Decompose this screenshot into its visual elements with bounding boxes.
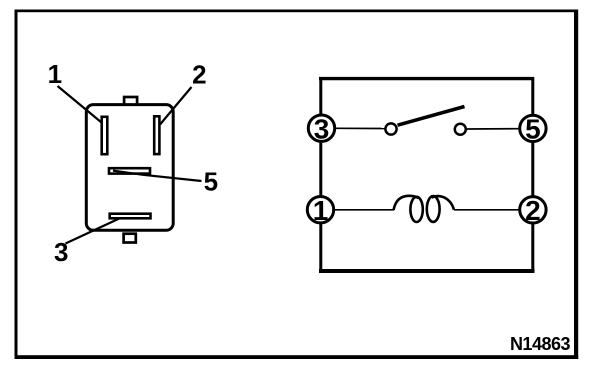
- pin label 3: [54, 237, 68, 267]
- terminal slot pin 2 (right vertical): [154, 116, 159, 154]
- svg-text:3: 3: [314, 113, 330, 144]
- svg-text:2: 2: [525, 195, 541, 226]
- terminal slot pin 1 (left vertical): [102, 117, 108, 154]
- relay coil: [394, 196, 454, 222]
- svg-text:3: 3: [54, 237, 68, 267]
- wire from terminal 3 to switch contact: [335, 127, 385, 129]
- relay connector top mounting tab: [124, 97, 137, 106]
- leader line from label 2 to pin 2: [160, 87, 192, 125]
- terminal 5: [520, 114, 546, 145]
- switch contact right: [455, 124, 466, 135]
- wire from switch contact to terminal 5: [467, 128, 519, 130]
- figure number N14863: [510, 334, 571, 354]
- svg-text:5: 5: [525, 114, 541, 145]
- schematic box top wire: [319, 77, 534, 80]
- terminal 3: [308, 113, 334, 144]
- relay connector bottom mounting tab: [124, 234, 136, 243]
- schematic box left wire (through terminals 3 and 1): [319, 77, 322, 271]
- leader line from label 5 to pin 5: [113, 171, 202, 181]
- svg-text:1: 1: [313, 195, 329, 226]
- terminal 1: [307, 195, 333, 226]
- pin label 1: [48, 59, 62, 89]
- svg-text:5: 5: [204, 167, 218, 197]
- terminal slot pin 3 (bottom horizontal): [110, 214, 151, 219]
- terminal 2: [520, 195, 546, 226]
- wire from coil to terminal 2: [454, 209, 519, 211]
- switch blade: [398, 107, 465, 126]
- svg-text:2: 2: [192, 60, 206, 90]
- pin label 2: [192, 60, 206, 90]
- leader line from label 3 to pin 3: [66, 219, 120, 244]
- schematic box right wire (through terminals 5 and 2): [531, 77, 534, 271]
- wire from terminal 1 to coil: [335, 209, 394, 211]
- svg-text:1: 1: [48, 59, 62, 89]
- terminal slot pin 5 (middle horizontal): [109, 168, 150, 173]
- svg-text:N14863: N14863: [510, 334, 571, 354]
- leader line from label 1 to pin 1: [58, 86, 102, 123]
- pin label 5: [204, 167, 218, 197]
- switch contact left: [385, 123, 396, 134]
- schematic box bottom wire: [319, 269, 535, 273]
- relay connector body: [86, 105, 173, 231]
